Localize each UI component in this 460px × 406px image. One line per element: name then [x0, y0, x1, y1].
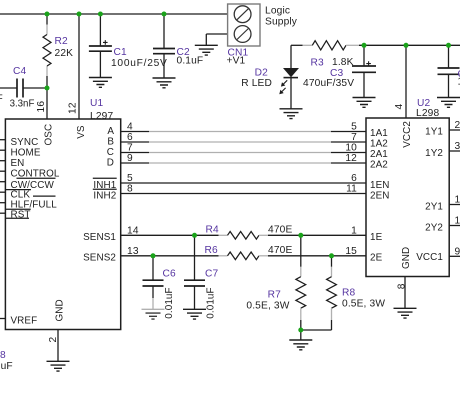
svg-text:Supply: Supply: [265, 17, 298, 28]
svg-text:2E: 2E: [370, 252, 383, 263]
svg-text:VCC2: VCC2: [402, 121, 413, 148]
svg-text:14: 14: [127, 225, 139, 236]
svg-text:2A2: 2A2: [370, 160, 388, 171]
svg-text:2EN: 2EN: [370, 191, 390, 202]
svg-text:2: 2: [455, 120, 460, 131]
svg-text:SENS1: SENS1: [83, 232, 116, 243]
svg-text:6: 6: [127, 132, 133, 143]
svg-text:L297: L297: [90, 111, 113, 122]
svg-text:A: A: [107, 126, 114, 137]
svg-text:2Y2: 2Y2: [425, 223, 443, 234]
svg-text:4: 4: [394, 104, 405, 110]
svg-text:B: B: [107, 136, 114, 147]
svg-text:C4: C4: [13, 66, 27, 77]
svg-text:SYNC: SYNC: [11, 137, 39, 148]
svg-text:2: 2: [48, 337, 59, 343]
svg-text:1E: 1E: [370, 232, 383, 243]
svg-text:RST: RST: [11, 210, 31, 221]
svg-text:0.01uF: 0.01uF: [206, 287, 217, 318]
svg-text:0.5E, 3W: 0.5E, 3W: [246, 301, 289, 312]
svg-text:VREF: VREF: [11, 316, 38, 327]
svg-text:GND: GND: [401, 247, 412, 269]
svg-text:0.5E, 3W: 0.5E, 3W: [342, 299, 385, 310]
svg-text:2A1: 2A1: [370, 149, 388, 160]
svg-text:C: C: [107, 147, 114, 158]
svg-text:11: 11: [346, 184, 357, 195]
svg-text:0.01uF: 0.01uF: [164, 287, 175, 318]
svg-text:16: 16: [36, 101, 47, 113]
svg-text:2Y1: 2Y1: [425, 202, 443, 213]
svg-text:HOME: HOME: [11, 148, 41, 159]
svg-text:1: 1: [351, 225, 357, 236]
svg-text:C6: C6: [163, 269, 177, 280]
svg-text:U1: U1: [90, 98, 104, 109]
svg-text:R8: R8: [342, 288, 356, 299]
svg-text:8: 8: [127, 184, 133, 195]
svg-text:9: 9: [455, 246, 460, 257]
svg-text:C7: C7: [205, 269, 219, 280]
svg-text:22K: 22K: [55, 48, 74, 59]
svg-text:470E: 470E: [268, 225, 292, 236]
svg-text:3.3nF: 3.3nF: [10, 99, 35, 110]
svg-text:9: 9: [127, 153, 133, 164]
svg-text:VS: VS: [76, 125, 87, 139]
svg-text:INH2: INH2: [93, 190, 116, 201]
svg-text:13: 13: [455, 195, 460, 206]
svg-text:R6: R6: [205, 245, 219, 256]
svg-text:1.8K: 1.8K: [332, 57, 354, 68]
svg-text:D: D: [107, 157, 114, 168]
svg-text:R3: R3: [311, 58, 325, 69]
svg-text:13: 13: [127, 246, 139, 257]
svg-text:6: 6: [351, 173, 357, 184]
svg-text:0.1uF: 0.1uF: [177, 56, 204, 67]
svg-text:8: 8: [397, 283, 408, 289]
svg-text:1Y2: 1Y2: [425, 148, 443, 159]
svg-text:3: 3: [455, 141, 460, 152]
svg-text:F: F: [0, 94, 3, 105]
svg-text:Logic: Logic: [265, 6, 290, 17]
svg-text:1A2: 1A2: [370, 139, 388, 150]
svg-text:12: 12: [68, 102, 79, 114]
svg-text:10: 10: [345, 143, 357, 154]
svg-text:GND: GND: [54, 299, 65, 321]
svg-text:R LED: R LED: [241, 78, 272, 89]
svg-text:R7: R7: [268, 290, 282, 301]
svg-text:R2: R2: [55, 36, 69, 47]
svg-text:1EN: 1EN: [370, 180, 390, 191]
svg-text:7: 7: [351, 132, 357, 143]
svg-text:5: 5: [127, 173, 133, 184]
svg-text:0.1uF: 0.1uF: [0, 361, 13, 372]
svg-text:C1: C1: [114, 47, 128, 58]
svg-text:15: 15: [345, 246, 357, 257]
svg-text:470uF/35V: 470uF/35V: [303, 78, 354, 89]
svg-text:14: 14: [455, 216, 460, 227]
svg-text:5: 5: [351, 122, 357, 133]
svg-text:L298: L298: [416, 108, 439, 119]
svg-text:4: 4: [127, 122, 133, 133]
svg-text:12: 12: [345, 153, 357, 164]
svg-text:100uF/25V: 100uF/25V: [111, 58, 168, 69]
svg-text:R4: R4: [206, 225, 220, 236]
svg-text:470E: 470E: [268, 245, 292, 256]
svg-text:+V1: +V1: [227, 56, 246, 67]
svg-text:SENS2: SENS2: [83, 252, 116, 263]
svg-text:1A1: 1A1: [370, 128, 388, 139]
svg-text:OSC: OSC: [43, 124, 54, 146]
svg-text:7: 7: [127, 143, 133, 154]
svg-text:EN: EN: [11, 158, 25, 169]
svg-text:VCC1: VCC1: [416, 252, 443, 263]
svg-text:1Y1: 1Y1: [425, 127, 443, 138]
svg-text:C8: C8: [0, 350, 6, 361]
